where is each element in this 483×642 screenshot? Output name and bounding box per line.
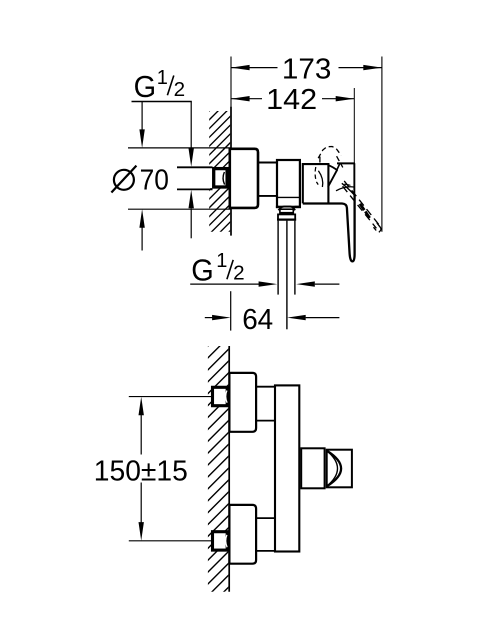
svg-text:142: 142 bbox=[266, 84, 317, 116]
svg-text:173: 173 bbox=[282, 53, 332, 85]
svg-text:2: 2 bbox=[174, 79, 186, 101]
svg-text:1: 1 bbox=[157, 67, 168, 89]
svg-text:150±15: 150±15 bbox=[94, 456, 188, 488]
svg-text:G: G bbox=[191, 254, 214, 288]
svg-text:1: 1 bbox=[216, 250, 227, 272]
svg-text:64: 64 bbox=[242, 304, 273, 336]
svg-text:G: G bbox=[134, 70, 157, 104]
svg-text:70: 70 bbox=[140, 165, 169, 197]
svg-text:2: 2 bbox=[233, 262, 245, 284]
